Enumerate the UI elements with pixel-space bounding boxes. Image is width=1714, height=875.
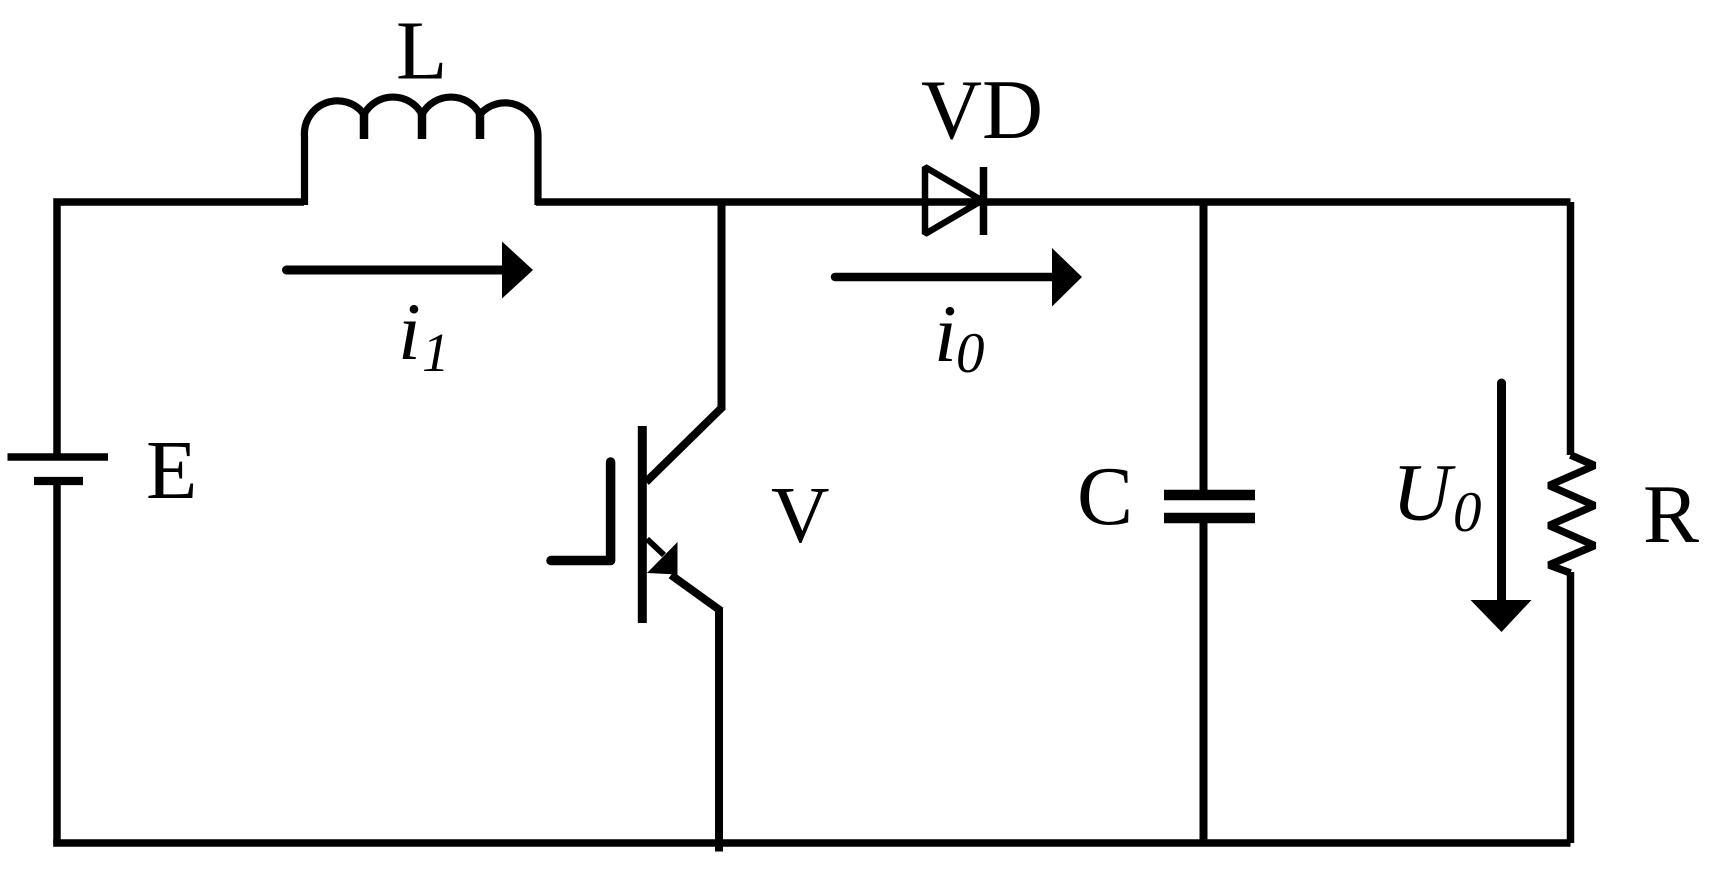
capacitor C top lead bbox=[1200, 202, 1208, 490]
svg-text:i: i bbox=[934, 288, 957, 379]
svg-text:V: V bbox=[771, 470, 830, 560]
transistor V (IGBT) collector lead bbox=[646, 202, 722, 482]
svg-text:E: E bbox=[146, 424, 197, 517]
transistor V emitter stub bbox=[647, 539, 664, 555]
arrow U0 bbox=[1497, 383, 1506, 603]
wire: top rail from inductor to right rail bbox=[536, 198, 1571, 206]
capacitor C bottom plate bbox=[1164, 513, 1255, 524]
capacitor C bottom lead bbox=[1200, 523, 1208, 843]
wire: right rail upper bbox=[1567, 202, 1575, 455]
transistor V emitter lead bbox=[671, 575, 721, 611]
svg-text:C: C bbox=[1077, 450, 1133, 543]
transistor V bar bbox=[638, 426, 647, 623]
svg-text:1: 1 bbox=[422, 322, 450, 383]
wire: left rail lower bbox=[53, 481, 61, 843]
transistor V emitter arrowhead bbox=[647, 542, 678, 575]
svg-text:U: U bbox=[1392, 447, 1456, 538]
arrow i0 bbox=[835, 273, 1055, 282]
capacitor C top plate bbox=[1164, 490, 1255, 501]
svg-text:0: 0 bbox=[956, 322, 985, 385]
diode VD cathode bar bbox=[980, 167, 988, 235]
battery E plate long bbox=[8, 453, 109, 461]
arrow i1 bbox=[287, 266, 506, 275]
inductor L bbox=[304, 97, 538, 205]
svg-text:R: R bbox=[1643, 468, 1699, 561]
wire: top rail left segment (battery top to inductor) bbox=[57, 202, 304, 457]
transistor V gate bbox=[551, 462, 611, 561]
svg-text:L: L bbox=[396, 5, 447, 98]
svg-text:i: i bbox=[398, 286, 421, 377]
svg-text:0: 0 bbox=[1453, 481, 1482, 544]
wire: bottom rail bbox=[53, 839, 1570, 847]
diode VD triangle bbox=[925, 167, 982, 234]
svg-text:VD: VD bbox=[921, 64, 1043, 157]
wire: right rail lower bbox=[1567, 572, 1575, 843]
battery E plate short bbox=[34, 477, 83, 485]
resistor R zigzag bbox=[1549, 455, 1595, 573]
